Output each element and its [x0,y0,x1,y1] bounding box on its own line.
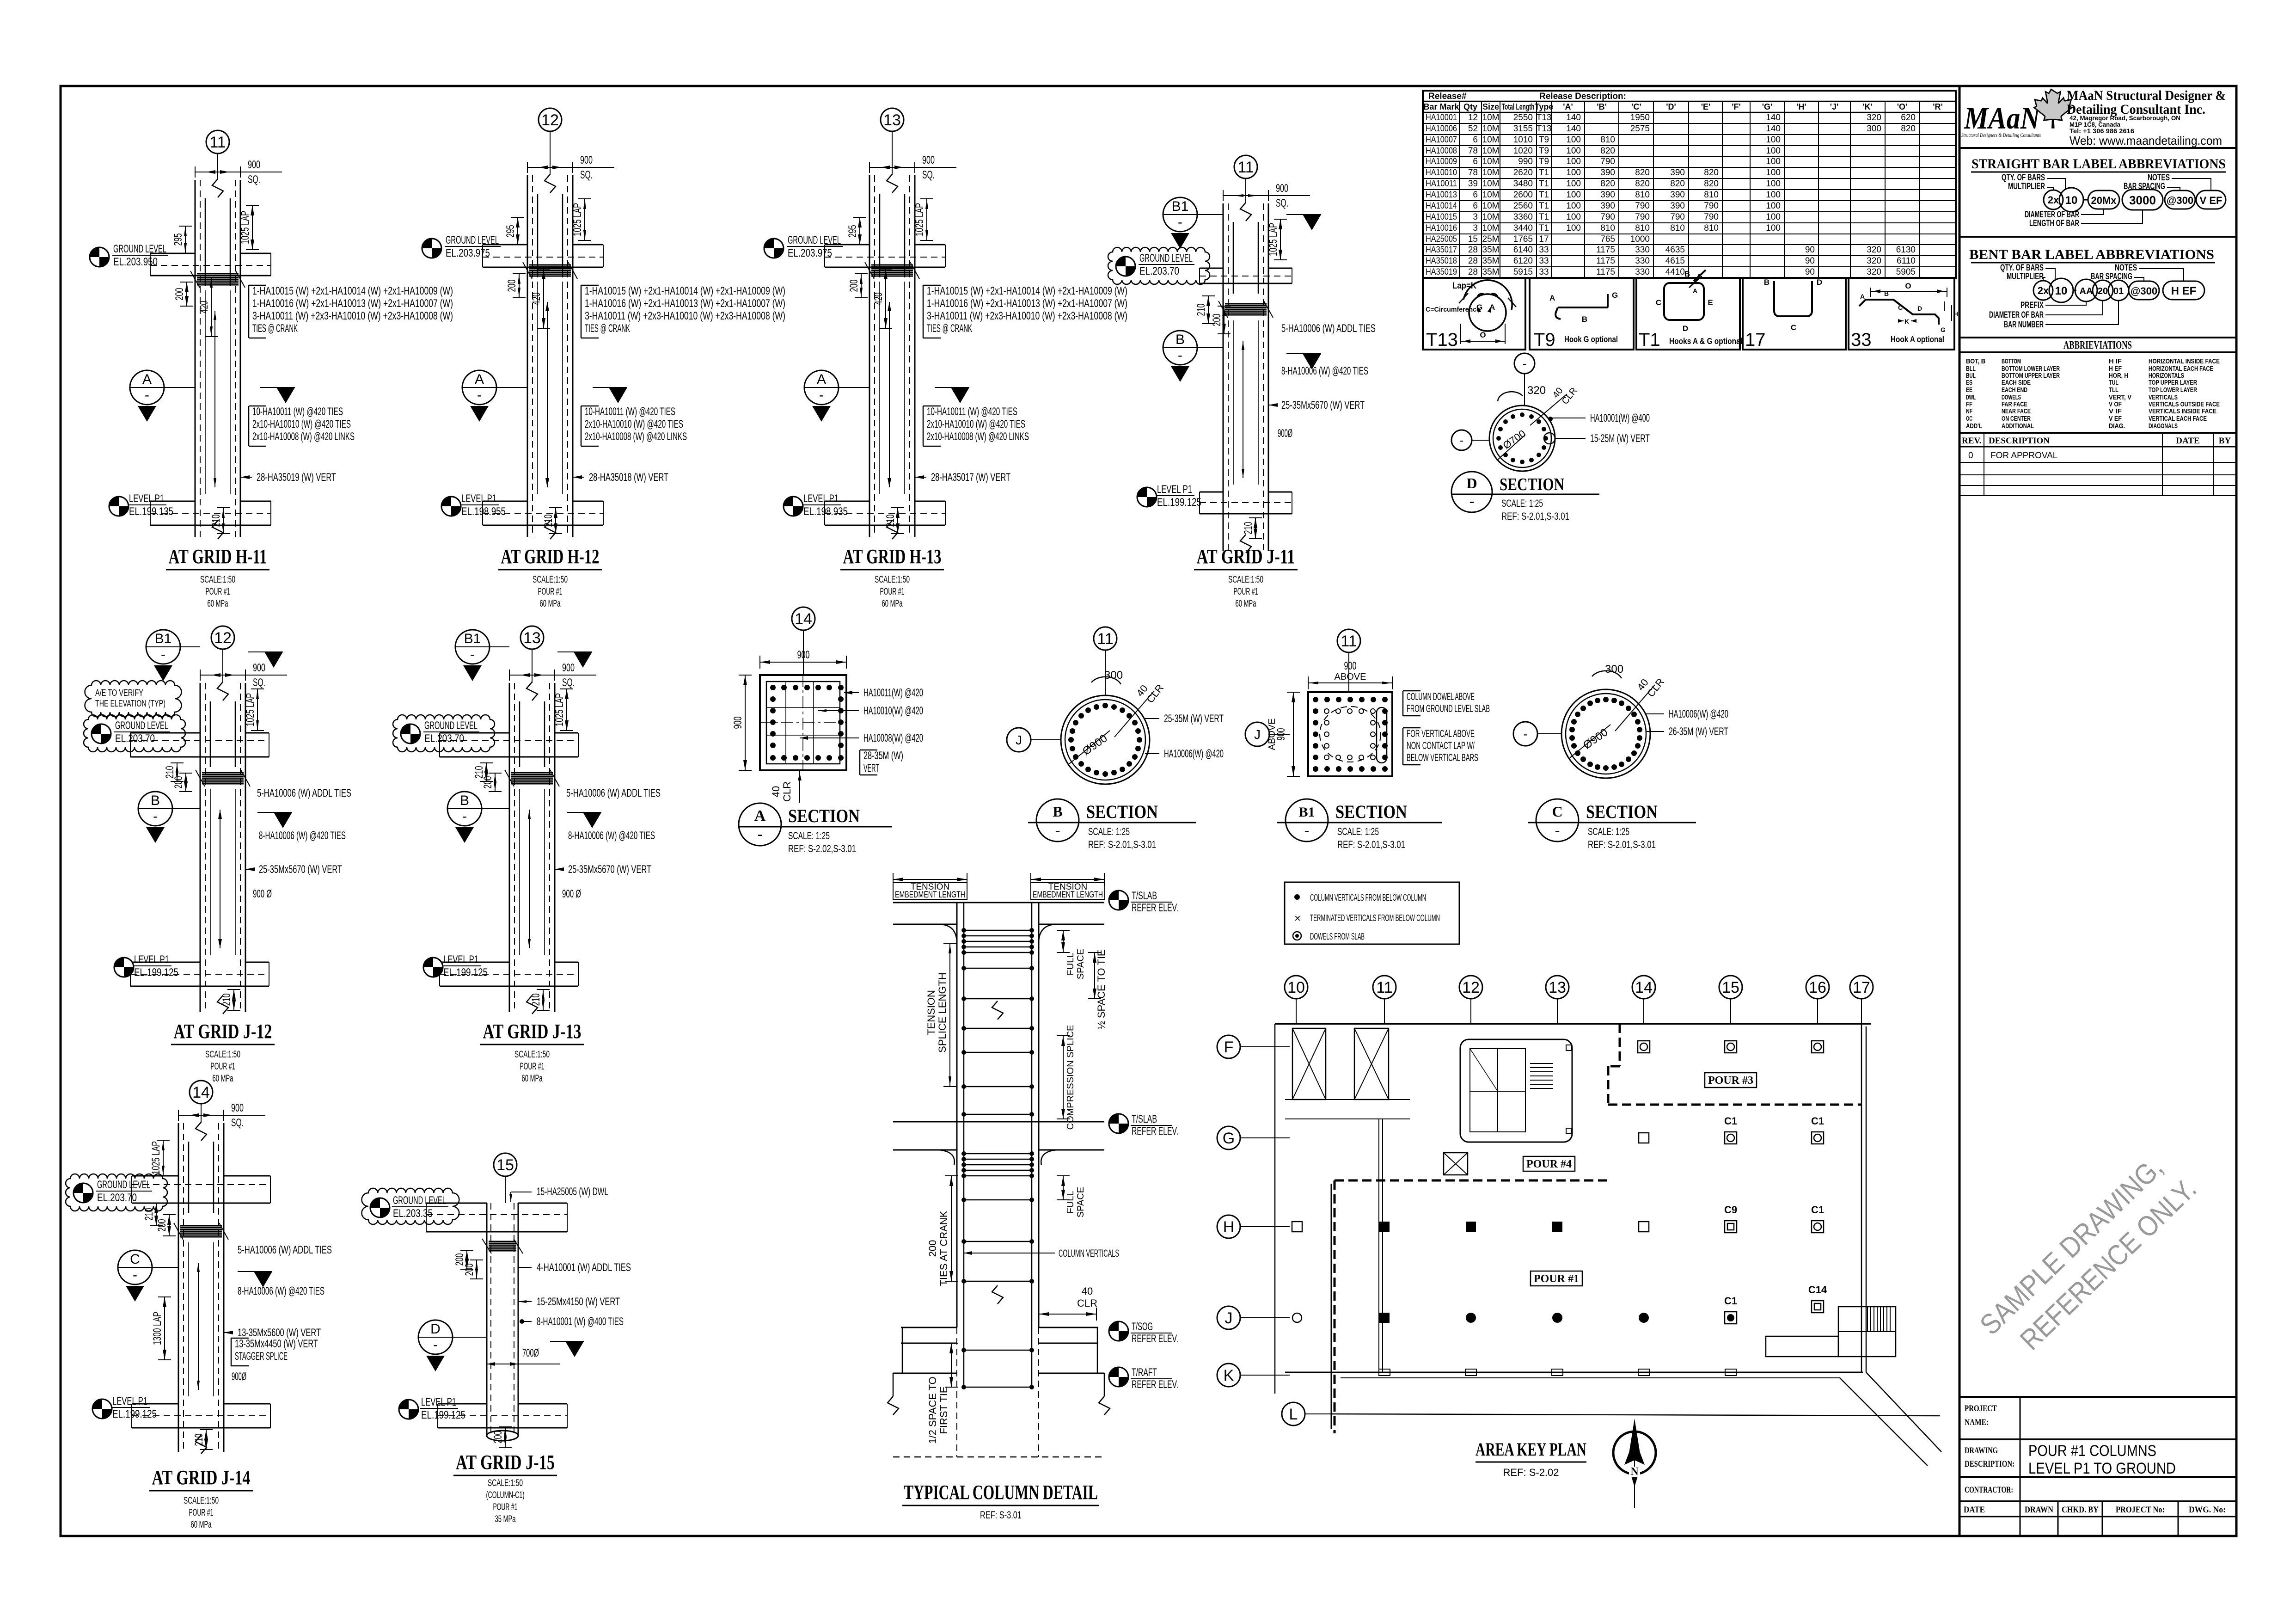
svg-text:AT GRID J-14: AT GRID J-14 [152,1466,251,1489]
svg-text:6: 6 [1473,157,1478,166]
svg-text:3155: 3155 [1513,124,1533,134]
svg-text:300: 300 [1867,124,1881,134]
svg-text:1025 LAP: 1025 LAP [571,203,584,236]
svg-text:FULL: FULL [1065,1191,1076,1214]
svg-text:300: 300 [1104,669,1123,682]
svg-text:EE: EE [1966,386,1972,394]
svg-text:SPLICE LENGTH: SPLICE LENGTH [937,972,948,1053]
svg-text:EL.203.950: EL.203.950 [113,256,158,268]
svg-text:SPACE: SPACE [1076,949,1086,979]
svg-text:HA10014: HA10014 [1426,201,1457,211]
svg-text:330: 330 [1635,245,1650,255]
svg-text:DIAGONALS: DIAGONALS [2149,422,2178,430]
svg-text:1-HA10015 (W) +2x1-HA10014: 1-HA10015 (W) +2x1-HA10014 (W) +2x1-HA10… [585,285,785,297]
svg-text:140: 140 [1766,124,1781,134]
svg-text:ES: ES [1966,379,1972,387]
svg-text:DATE: DATE [1964,1505,1985,1515]
svg-text:NF: NF [1966,407,1972,415]
plan grid bubble 14 [1632,976,1655,999]
svg-text:-: - [1055,822,1060,840]
dimension 1025 LAP [926,199,927,240]
svg-text:Total Length: Total Length [1502,102,1535,111]
svg-text:14: 14 [1635,979,1653,996]
svg-text:C: C [1791,323,1796,332]
svg-text:-: - [470,647,475,662]
level P1 slab band [1200,492,1223,493]
svg-text:300: 300 [1605,663,1623,676]
svg-text:NOTES: NOTES [2148,173,2170,183]
dimension 900 SQ. [178,1115,265,1116]
svg-text:LEVEL P1: LEVEL P1 [129,492,164,505]
svg-text:POUR #1: POUR #1 [493,1502,518,1512]
svg-text:330: 330 [1635,256,1650,266]
svg-text:REF: S-2.02,S-3.01: REF: S-2.02,S-3.01 [788,843,856,854]
svg-text:100: 100 [1566,157,1581,166]
dimension 900 SQ. [195,172,282,172]
lap splice crank hatch [871,264,913,266]
svg-text:E: E [1708,298,1713,307]
svg-text:Release Description:: Release Description: [1539,92,1626,101]
svg-text:T13: T13 [1537,113,1552,123]
svg-text:T/SLAB: T/SLAB [1132,890,1157,902]
dimension 295 [859,217,860,245]
dimension 200 [861,274,862,298]
svg-text:V EF: V EF [2200,195,2223,206]
svg-text:REFER ELEV.: REFER ELEV. [1132,1125,1178,1137]
svg-text:-: - [1460,433,1464,447]
bubble stem [222,649,223,683]
svg-text:A: A [1693,287,1697,295]
lap splice crank hatch [511,772,553,774]
bubble stem [1245,178,1246,203]
svg-text:1025 LAP: 1025 LAP [1267,223,1280,256]
svg-text:12: 12 [1462,979,1480,996]
svg-text:'B': 'B' [1597,102,1607,111]
svg-text:40: 40 [770,786,782,797]
svg-text:900: 900 [248,159,260,171]
svg-text:AT GRID J-12: AT GRID J-12 [174,1020,272,1043]
section cut arrow [583,812,601,828]
svg-text:PROJECT: PROJECT [1965,1404,1997,1413]
level P1 elevation marker [92,1399,112,1419]
svg-text:35 MPa: 35 MPa [495,1514,516,1524]
svg-text:320: 320 [1867,113,1881,123]
svg-text:SECTION: SECTION [788,805,860,826]
level P1 slab band [825,501,869,502]
svg-text:Hook G optional: Hook G optional [1564,335,1618,344]
svg-text:1025 LAP: 1025 LAP [239,211,251,244]
svg-text:35M: 35M [1482,267,1500,277]
svg-text:100: 100 [1566,190,1581,200]
svg-text:25-35Mx5670 (W) VERT: 25-35Mx5670 (W) VERT [568,863,651,876]
grid bubble 11 [206,130,229,154]
svg-text:790: 790 [1600,157,1615,166]
svg-text:@300: @300 [2131,285,2157,297]
svg-text:20Mx: 20Mx [2091,195,2117,206]
svg-text:90: 90 [1805,256,1815,266]
svg-text:A: A [1549,294,1555,302]
svg-text:ON CENTER: ON CENTER [2002,415,2031,423]
svg-text:B: B [1884,290,1889,297]
svg-text:15-HA25005 (W) DWL: 15-HA25005 (W) DWL [537,1186,608,1198]
svg-text:EMBEDMENT LENGTH: EMBEDMENT LENGTH [895,890,965,900]
svg-text:'K': 'K' [1862,102,1873,111]
svg-text:EL.199.135: EL.199.135 [129,505,173,518]
svg-text:LENGTH OF BAR: LENGTH OF BAR [2029,219,2079,228]
svg-text:REFER ELEV.: REFER ELEV. [1132,1333,1178,1345]
svg-text:Hook A optional: Hook A optional [1891,335,1944,344]
svg-text:790: 790 [1635,201,1650,211]
svg-text:FULL: FULL [1065,953,1076,976]
svg-text:C: C [130,1252,140,1267]
svg-text:ABBRIEVIATIONS: ABBRIEVIATIONS [2063,339,2132,351]
svg-text:10M: 10M [1482,135,1500,145]
svg-text:B1: B1 [1298,805,1315,820]
dimension 1025 LAP [1280,219,1281,260]
svg-text:100: 100 [1766,168,1781,178]
section cut arrow [1303,354,1321,369]
svg-text:1175: 1175 [1596,267,1615,277]
svg-text:SCALE:1:50: SCALE:1:50 [200,574,235,585]
svg-text:T1: T1 [1539,201,1549,211]
svg-text:HA10015: HA10015 [1426,212,1457,222]
svg-text:GROUND LEVEL: GROUND LEVEL [113,243,166,255]
svg-text:820: 820 [1635,179,1650,189]
svg-text:C: C [1898,304,1903,311]
dimension 210 [223,508,224,534]
svg-text:Bar Mark: Bar Mark [1423,102,1459,111]
svg-text:790: 790 [1704,201,1719,211]
svg-text:-: - [153,809,158,824]
svg-text:820: 820 [1600,179,1615,189]
svg-text:15: 15 [496,1156,514,1174]
svg-text:810: 810 [1635,223,1650,233]
svg-text:100: 100 [1566,223,1581,233]
svg-text:2x: 2x [2038,285,2049,296]
svg-text:O: O [1905,282,1911,290]
ground level slab band [132,1175,178,1177]
revision table [1959,433,2236,496]
svg-text:T1: T1 [1539,223,1549,233]
svg-text:4-HA10001 (W) ADDL TIES: 4-HA10001 (W) ADDL TIES [537,1261,631,1274]
svg-text:1000: 1000 [1630,234,1650,244]
svg-text:NOTES: NOTES [2115,263,2137,273]
svg-text:ADDITIONAL: ADDITIONAL [2002,422,2034,430]
svg-text:A: A [475,372,484,387]
svg-text:0: 0 [1968,451,1973,461]
svg-text:T1: T1 [1539,190,1549,200]
svg-text:100: 100 [1766,179,1781,189]
level P1 elevation marker [423,958,443,977]
title block company header [1959,88,2236,148]
svg-text:210: 210 [143,1208,155,1221]
svg-text:HA10008(W) @420: HA10008(W) @420 [863,732,923,744]
svg-text:-: - [161,647,165,662]
svg-text:3000: 3000 [2129,193,2156,207]
svg-text:28-HA35018 (W) VERT: 28-HA35018 (W) VERT [589,471,668,484]
svg-text:210: 210 [220,994,233,1006]
svg-text:LEVEL P1: LEVEL P1 [134,953,169,966]
dimension 210 [233,989,234,1010]
straight bar label abbreviations panel [1959,156,2236,237]
svg-text:1-HA10015 (W) +2x1-HA10014: 1-HA10015 (W) +2x1-HA10014 (W) +2x1-HA10… [252,285,453,297]
svg-text:10M: 10M [1482,146,1500,156]
svg-text:810: 810 [1704,190,1719,200]
section cut arrow [951,387,969,403]
svg-text:820: 820 [1670,179,1685,189]
svg-text:5905: 5905 [1896,267,1916,277]
svg-text:TLL: TLL [2109,386,2118,394]
svg-text:SQ.: SQ. [922,169,935,181]
level P1 slab band [150,501,195,502]
bent bar label abbreviations panel [1959,247,2236,338]
lap splice crank hatch [197,273,239,275]
plan grid bubble 13 [1546,976,1569,999]
svg-text:420: 420 [530,293,543,305]
svg-text:3-HA10011 (W) +2x3-HA10010: 3-HA10011 (W) +2x3-HA10010 (W) +2x3-HA10… [252,310,453,322]
dimension 210 [177,763,178,781]
svg-text:DIAMETER OF BAR: DIAMETER OF BAR [1989,310,2044,320]
svg-text:DOWELS FROM SLAB: DOWELS FROM SLAB [1310,932,1365,942]
section detail B SECTION [1094,627,1117,650]
svg-text:820: 820 [1635,168,1650,178]
svg-text:140: 140 [1766,113,1781,123]
lap splice crank hatch [180,1225,222,1227]
svg-text:GROUND LEVEL: GROUND LEVEL [788,234,841,246]
svg-text:'G': 'G' [1762,102,1773,111]
svg-text:SQ.: SQ. [580,169,593,181]
contractor block [1959,1477,2236,1501]
level P1 slab band [483,501,527,502]
svg-text:17: 17 [1853,979,1870,996]
svg-text:200: 200 [848,280,860,292]
svg-text:210: 210 [542,515,555,527]
svg-text:15-25M (W) VERT: 15-25M (W) VERT [1590,432,1650,445]
svg-text:H: H [1223,1218,1235,1236]
svg-text:14: 14 [795,610,812,628]
svg-text:10M: 10M [1482,223,1500,233]
svg-text:900 Ø: 900 Ø [562,888,581,900]
svg-text:HA10006(W) @420: HA10006(W) @420 [1669,708,1728,720]
svg-text:DESCRIPTION: DESCRIPTION [1989,436,2050,446]
svg-text:GROUND LEVEL: GROUND LEVEL [393,1194,446,1207]
svg-text:-: - [1304,822,1309,840]
column shaft outline [200,683,201,1012]
svg-text:2x10-HA10008 (W) @420 LINKS: 2x10-HA10008 (W) @420 LINKS [585,430,687,443]
svg-text:FIRST TIE: FIRST TIE [938,1386,949,1434]
svg-text:DESCRIPTION:: DESCRIPTION: [1965,1459,2014,1469]
svg-text:HORIZONTAL INSIDE FACE: HORIZONTAL INSIDE FACE [2149,357,2220,365]
svg-text:LEVEL P1: LEVEL P1 [1157,483,1192,496]
svg-text:11: 11 [1376,979,1392,996]
svg-text:J: J [1225,1309,1233,1327]
svg-text:900: 900 [231,1102,244,1114]
svg-text:900: 900 [253,662,265,674]
svg-text:AT GRID H-12: AT GRID H-12 [501,545,600,568]
svg-text:SCALE:1:50: SCALE:1:50 [514,1049,550,1060]
svg-text:HA10016: HA10016 [1426,223,1457,233]
svg-text:CLR: CLR [1077,1297,1097,1309]
svg-text:10: 10 [2065,194,2078,207]
section cut marker C [118,1250,152,1284]
dimension 1025 LAP [566,689,567,731]
svg-text:SCALE: 1:25: SCALE: 1:25 [788,830,830,842]
svg-text:C9: C9 [1724,1204,1737,1216]
dimension 900 SQ. [1223,195,1310,196]
svg-text:POUR #1: POUR #1 [538,586,563,597]
svg-text:820: 820 [1600,146,1615,156]
svg-text:790: 790 [1600,212,1615,222]
svg-text:'H': 'H' [1796,102,1806,111]
svg-text:1765: 1765 [1513,234,1533,244]
svg-text:200: 200 [173,288,186,301]
svg-text:BAR SPACING: BAR SPACING [2091,272,2132,282]
svg-text:EACH SIDE: EACH SIDE [2002,379,2031,387]
svg-text:6140: 6140 [1513,245,1533,255]
svg-text:2x: 2x [2048,194,2059,206]
section cut arrow [276,387,295,403]
svg-text:SECTION: SECTION [1586,801,1658,822]
svg-text:28-35M (W): 28-35M (W) [863,750,903,762]
svg-text:HA10010: HA10010 [1426,168,1457,178]
svg-text:J: J [1016,733,1022,747]
svg-text:-: - [1178,348,1182,363]
svg-text:T/SLAB: T/SLAB [1132,1113,1157,1125]
section cut marker B [138,792,172,826]
svg-text:13-35Mx4450 (W) VERT: 13-35Mx4450 (W) VERT [235,1338,318,1350]
svg-text:REF: S-2.01,S-3.01: REF: S-2.01,S-3.01 [1501,510,1569,522]
svg-text:EL.203.70: EL.203.70 [115,732,155,745]
svg-text:EL.203.70: EL.203.70 [1139,265,1179,277]
section cut marker A [804,370,839,405]
svg-text:POUR #1: POUR #1 [1234,586,1258,597]
svg-text:H IF: H IF [2109,357,2122,365]
svg-text:SQ.: SQ. [1276,197,1288,209]
svg-text:SCALE:1:50: SCALE:1:50 [205,1049,240,1060]
svg-text:D: D [1466,475,1477,492]
svg-text:T9: T9 [1539,135,1549,145]
svg-text:'R': 'R' [1933,102,1943,111]
svg-text:33: 33 [1539,267,1549,277]
svg-text:320: 320 [1867,256,1881,266]
svg-text:VERT: VERT [863,762,879,774]
section cut arrow [274,812,292,828]
svg-text:DATE: DATE [2176,436,2199,446]
svg-text:100: 100 [1766,157,1781,166]
svg-text:810: 810 [1635,190,1650,200]
svg-text:B1: B1 [1172,199,1189,214]
svg-text:790: 790 [1704,212,1719,222]
bubble stem [892,131,893,175]
svg-text:'C': 'C' [1631,102,1641,111]
section detail C SECTION [1513,663,1728,850]
svg-text:420: 420 [872,293,885,305]
svg-text:320: 320 [1867,245,1881,255]
svg-text:900Ø: 900Ø [1278,427,1292,440]
svg-text:QTY. OF BARS: QTY. OF BARS [2000,263,2044,273]
svg-text:C1: C1 [1811,1115,1824,1127]
svg-text:GROUND LEVEL: GROUND LEVEL [97,1179,150,1191]
svg-text:AREA KEY PLAN: AREA KEY PLAN [1476,1439,1586,1460]
column shaft outline [869,175,870,537]
ground level slab band [150,253,195,254]
svg-text:5-HA10006 (W) ADDL TIES: 5-HA10006 (W) ADDL TIES [238,1244,332,1256]
svg-text:LEVEL P1: LEVEL P1 [803,492,839,505]
svg-text:100: 100 [1566,135,1581,145]
svg-text:2550: 2550 [1513,113,1533,123]
svg-text:390: 390 [1670,201,1685,211]
svg-text:C: C [1552,803,1562,820]
svg-text:2x10-HA10010 (W) @420 TIES: 2x10-HA10010 (W) @420 TIES [252,418,351,430]
svg-text:10M: 10M [1482,201,1500,211]
svg-text:10: 10 [2055,285,2068,297]
svg-text:12: 12 [214,629,232,647]
svg-text:5-HA10006 (W) ADDL TIES: 5-HA10006 (W) ADDL TIES [566,787,661,799]
svg-text:REFER ELEV.: REFER ELEV. [1132,1378,1178,1391]
svg-text:EL.199.125: EL.199.125 [421,1409,465,1421]
svg-text:14: 14 [192,1084,210,1101]
svg-text:6110: 6110 [1897,256,1916,266]
plan grid bubble L [1282,1402,1305,1425]
svg-text:K: K [1904,318,1909,325]
svg-text:52: 52 [1468,124,1478,134]
section cut arrow [574,652,592,668]
section cut arrow [1303,215,1321,230]
svg-text:ABOVE: ABOVE [1335,672,1366,682]
svg-text:G: G [1612,291,1618,300]
section detail B1 SECTION [1245,629,1490,850]
svg-text:1-HA10015 (W) +2x1-HA10014: 1-HA10015 (W) +2x1-HA10014 (W) +2x1-HA10… [927,285,1127,297]
svg-text:EL.203.70: EL.203.70 [97,1192,137,1204]
svg-text:CONTRACTOR:: CONTRACTOR: [1965,1485,2013,1495]
bubble stem [532,649,533,683]
svg-text:10: 10 [1287,979,1305,996]
svg-text:100: 100 [1766,135,1781,145]
svg-text:13: 13 [523,629,541,647]
svg-text:H: H [1953,310,1958,318]
svg-text:A: A [142,372,152,387]
svg-text:SCALE: 1:25: SCALE: 1:25 [1501,498,1543,509]
svg-text:A: A [817,372,826,387]
svg-text:10M: 10M [1482,190,1500,200]
svg-text:H EF: H EF [2171,285,2197,297]
svg-text:33: 33 [1539,256,1549,266]
svg-text:200: 200 [172,776,185,789]
svg-text:T/RAFT: T/RAFT [1132,1366,1157,1379]
section cut arrow [254,1272,272,1287]
svg-text:D: D [1917,305,1922,312]
svg-text:Size: Size [1482,102,1499,111]
svg-text:Hooks A & G optional: Hooks A & G optional [1669,337,1742,346]
svg-text:HA10001: HA10001 [1426,113,1457,123]
svg-text:B: B [1764,278,1769,287]
dimension 210 [156,1203,157,1226]
svg-text:-: - [1469,493,1474,510]
svg-text:BENT BAR LABEL ABBREVIATIONS: BENT BAR LABEL ABBREVIATIONS [1969,247,2214,262]
svg-text:1025 LAP: 1025 LAP [913,203,926,236]
svg-text:8-HA10006 (W) @420 TIES: 8-HA10006 (W) @420 TIES [238,1285,325,1297]
svg-text:2x10-HA10008 (W) @420 LINKS: 2x10-HA10008 (W) @420 LINKS [252,430,355,443]
svg-text:V IF: V IF [2109,407,2122,415]
svg-text:DRAWING: DRAWING [1965,1446,1998,1456]
area key plan [1217,976,1941,1478]
column detail AT GRID H-13 [764,108,1127,609]
ground level elevation marker [393,715,495,752]
svg-text:1-HA10016 (W) +2x1-HA10013: 1-HA10016 (W) +2x1-HA10013 (W) +2x1-HA10… [927,297,1127,310]
svg-text:POUR #1: POUR #1 [206,586,230,597]
svg-text:BOT, B: BOT, B [1966,357,1985,365]
svg-text:HA35018: HA35018 [1426,256,1457,266]
